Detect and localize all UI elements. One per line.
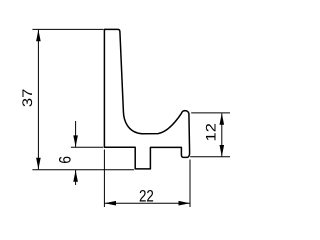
arrow 12 top (pointing up) [220,113,225,125]
svg-text:6: 6 [57,156,75,164]
extension line for dim 12 bottom (y=156.8) [190,156,230,158]
extension line for dim 12 top (y=112.8) [191,112,230,114]
svg-text:37: 37 [20,89,35,107]
arrow 37 bottom (pointing down) [36,158,41,170]
arrow 12 bottom (pointing down) [220,145,225,157]
dimension line 6 lower leader (x=75.6) [75,170,77,185]
arrow 22 right (pointing right) [179,201,191,206]
dimension line 6 upper leader (x=75.6) [75,121,77,147]
extension line top (y=29.3, for dim 37) [32,28,103,30]
arrow 37 top (pointing up) [36,30,41,42]
extension line for dim 22 right (x=190 vertical) [189,160,191,208]
arrow 22 left (pointing left) [105,201,117,206]
svg-text:12: 12 [204,123,219,141]
extension line left for dim 6 top reference (y=147.3) [71,146,103,148]
arrow 6 lower (pointing up, outside) [73,170,78,182]
profile outline (hook extrusion cross-section) [104,29,189,169]
arrow 6 upper (pointing down, outside) [73,135,78,147]
dimension line 22 (y=203.2 horizontal) [105,202,190,204]
dimension line 37 (x=38.4 vertical) [37,30,39,170]
dimension line 12 (x=221.8 vertical) [221,113,223,156]
svg-text:22: 22 [139,187,154,205]
extension line for dim 22 left (x=104.4 vertical) [103,150,105,208]
extension line bottom (y=169.6, for dims 37 and 6) [32,169,133,171]
